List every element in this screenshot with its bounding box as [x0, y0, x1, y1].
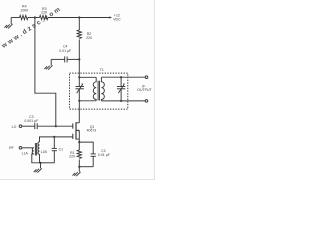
L1 core — [34, 143, 36, 156]
svg-text:40673: 40673 — [87, 128, 97, 132]
wire L1B top to gate 1 — [40, 137, 73, 142]
wire L1A bottom — [32, 154, 41, 163]
wire secondary bottom to output — [101, 100, 145, 102]
transistor Q1 dual-gate MOSFET — [73, 122, 96, 139]
terminal IF output bottom — [145, 100, 148, 103]
svg-text:220: 220 — [86, 36, 92, 40]
T1 shield dashed box — [70, 73, 128, 109]
wire rail R4 to R3 — [28, 17, 40, 19]
capacitor C2 — [91, 149, 110, 167]
wire bias line down-right-down to gate 2 node — [35, 18, 56, 127]
node drain junction — [78, 100, 80, 102]
node tank ground junction — [39, 162, 41, 164]
svg-text:www.dzsc.com: www.dzsc.com — [0, 5, 63, 50]
wire rail to +12 arrow — [48, 17, 110, 19]
node R1 ground junction — [78, 166, 80, 168]
node source junction — [78, 141, 80, 143]
terminal LO input — [19, 125, 22, 128]
wire L1B bottom — [39, 154, 41, 163]
T1 secondary winding — [101, 77, 104, 101]
svg-text:RF: RF — [9, 146, 14, 150]
node CT2 top — [120, 76, 122, 78]
+12 VDC supply arrow — [109, 14, 121, 22]
wire LO to C3 — [22, 125, 35, 127]
node CT2 bottom — [120, 100, 122, 102]
T1 primary winding — [93, 77, 96, 101]
wire C3 to gate 2 — [37, 125, 72, 127]
trimmer capacitor left — [76, 77, 84, 101]
trimmer capacitor right — [117, 77, 125, 101]
node C1 top junction — [53, 136, 55, 138]
svg-text:L1B: L1B — [41, 150, 48, 154]
wire top rail left segment — [11, 17, 19, 19]
wire tank bottom — [41, 162, 55, 164]
node C4-R2 junction — [78, 58, 80, 60]
node R2 top — [78, 16, 80, 18]
capacitor C1 — [52, 137, 63, 163]
svg-text:1000: 1000 — [20, 8, 28, 12]
inductor L1B — [38, 142, 48, 154]
ground chassis under R1 — [73, 167, 81, 177]
terminal RF input — [19, 147, 22, 150]
T1 core — [97, 81, 99, 101]
ground chassis top-left — [4, 18, 12, 29]
svg-text:T1: T1 — [100, 68, 104, 72]
wire R2 down into T1 box — [78, 59, 80, 77]
wire T1 primary top — [79, 76, 96, 78]
svg-text:VDC: VDC — [113, 17, 121, 21]
IF OUTPUT label — [137, 85, 152, 93]
node bias junction — [34, 16, 36, 18]
svg-text:C1: C1 — [59, 148, 64, 152]
wire source node to C2 — [79, 139, 93, 154]
svg-text:L1A: L1A — [22, 152, 29, 156]
resistor R2 — [77, 18, 92, 60]
wire source bottom — [79, 166, 93, 168]
page edge lines — [154, 0, 156, 180]
resistor R3 — [40, 7, 49, 20]
wire RF to L1A — [22, 147, 34, 149]
svg-text:220: 220 — [69, 154, 75, 158]
svg-text:LO: LO — [12, 125, 17, 129]
wire secondary top to output — [101, 76, 145, 78]
node T1 feed junction — [78, 76, 80, 78]
inductor L1A — [22, 148, 34, 156]
capacitor C4 bypass — [51, 45, 79, 63]
capacitor C3 — [24, 115, 38, 129]
ground chassis under L1 — [34, 163, 42, 173]
svg-text:OUTPUT: OUTPUT — [137, 88, 152, 92]
wire drain — [78, 101, 80, 123]
resistor R1 — [69, 142, 81, 167]
resistor R4 — [20, 4, 29, 19]
terminal IF output top — [145, 76, 148, 79]
svg-text:0.001 µF: 0.001 µF — [24, 119, 38, 123]
node gate2 bias junction — [55, 125, 57, 127]
svg-text:0.01 µF: 0.01 µF — [98, 153, 110, 157]
svg-text:0.01 µF: 0.01 µF — [59, 49, 71, 53]
wire T1 primary bottom — [79, 100, 96, 102]
ground chassis under C4 — [44, 59, 52, 69]
